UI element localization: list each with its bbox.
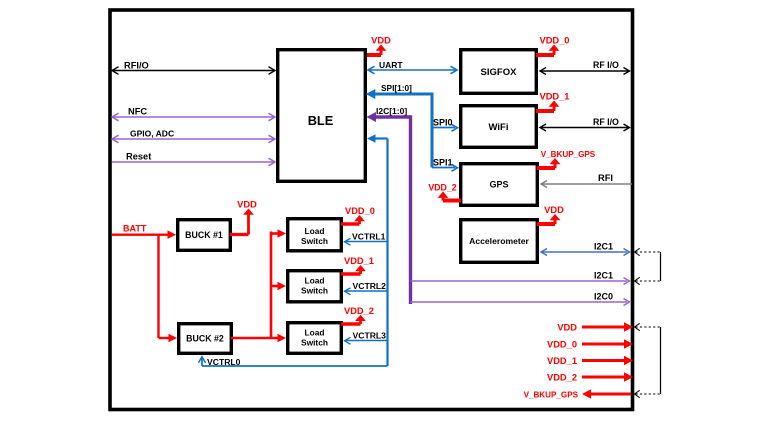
svg-text:V_BKUP_GPS: V_BKUP_GPS — [541, 150, 596, 159]
power VDD (Accelerometer) — [537, 222, 555, 226]
svg-text:VDD_2: VDD_2 — [547, 372, 577, 382]
svg-text:SPI1: SPI1 — [433, 157, 453, 167]
svg-text:VCTRL2: VCTRL2 — [353, 281, 387, 291]
svg-text:GPS: GPS — [489, 180, 508, 190]
block Accelerometer U5 — [461, 220, 538, 263]
svg-text:VDD_0: VDD_0 — [547, 339, 577, 349]
wire BATT branch down to BUCK#2 — [157, 235, 159, 338]
port VDD_1 (right border) — [582, 359, 624, 362]
block BUCK #1 — [178, 220, 231, 251]
wire SPI1 — [432, 167, 455, 169]
svg-text:Accelerometer: Accelerometer — [469, 236, 529, 246]
svg-text:I2C1: I2C1 — [594, 270, 613, 280]
power V_BKUP_GPS (GPS) — [537, 166, 555, 170]
wire VCTRL loop from BLE — [374, 137, 388, 139]
wire branch to Load Switch 1 — [271, 232, 280, 235]
wire RF I/O (SIGFOX) — [540, 70, 629, 72]
power VDD_0 (SIGFOX) — [536, 53, 554, 57]
svg-text:Switch: Switch — [301, 337, 328, 347]
wire VCTRL2 — [346, 290, 388, 292]
svg-text:VDD_0: VDD_0 — [345, 206, 375, 216]
svg-text:BUCK #2: BUCK #2 — [186, 334, 224, 344]
port VDD_2 (right border) — [582, 376, 624, 379]
svg-text:VDD: VDD — [237, 200, 257, 210]
block Load Switch 1 — [288, 219, 342, 251]
svg-text:RFI/O: RFI/O — [124, 60, 149, 70]
block BUCK #2 — [179, 324, 232, 354]
svg-text:BUCK #1: BUCK #1 — [185, 230, 223, 240]
wire BATT — [112, 233, 170, 235]
block BLE U1 — [278, 50, 366, 182]
wire NFC — [112, 116, 275, 118]
wire UART — [368, 69, 457, 71]
svg-text:BLE: BLE — [308, 113, 334, 128]
svg-text:VDD_2: VDD_2 — [344, 306, 374, 316]
svg-text:VDD: VDD — [557, 322, 577, 332]
bracket dashed I2C1-I2C1 outside border — [636, 251, 661, 253]
svg-text:BATT: BATT — [123, 224, 147, 234]
svg-text:I2C1: I2C1 — [594, 241, 613, 251]
block WiFi U3 — [461, 106, 537, 148]
block GPS U4 — [461, 164, 538, 206]
svg-text:Switch: Switch — [301, 236, 328, 246]
power VDD (BLE) — [367, 53, 381, 57]
svg-text:VDD: VDD — [544, 205, 564, 215]
wire I2C1 (Accelerometer) — [541, 251, 627, 253]
wire VCTRL3 — [346, 340, 388, 342]
svg-text:GPIO, ADC: GPIO, ADC — [130, 129, 174, 139]
wire SPI0 — [432, 127, 455, 129]
power VDD_1 (Load Switch 2) — [341, 272, 361, 276]
wire GPIO, ADC — [112, 138, 275, 140]
wire I2C1 (bus to border) — [411, 280, 628, 282]
svg-text:SPI0: SPI0 — [433, 117, 453, 127]
svg-text:V_BKUP_GPS: V_BKUP_GPS — [524, 390, 579, 399]
svg-text:VDD: VDD — [371, 36, 391, 46]
svg-text:VDD_0: VDD_0 — [540, 36, 570, 46]
bus SPI[1:0] — [374, 93, 432, 96]
svg-text:VDD_1: VDD_1 — [344, 256, 374, 266]
svg-text:UART: UART — [379, 60, 403, 70]
svg-text:Load: Load — [304, 328, 324, 338]
wire BUCK#2 output to Load Switches — [231, 337, 280, 340]
power VDD_0 (Load Switch 1) — [341, 222, 360, 226]
arrow VCTRL0 into BUCK#2 — [199, 357, 206, 363]
svg-text:VDD_2: VDD_2 — [428, 183, 456, 193]
block SIGFOX U2 — [461, 50, 537, 94]
port VDD_0 (right border) — [582, 343, 624, 346]
wire RFI/O — [112, 70, 275, 72]
wire I2C0 (bus to border) — [411, 301, 628, 303]
power VDD_1 (WiFi) — [536, 109, 554, 113]
power VDD (BUCK #1) — [230, 233, 249, 236]
svg-text:VCTRL3: VCTRL3 — [353, 331, 387, 341]
svg-text:NFC: NFC — [128, 107, 147, 117]
wire Reset — [112, 161, 275, 163]
svg-text:RFI: RFI — [598, 173, 613, 183]
svg-text:VDD_1: VDD_1 — [547, 356, 577, 366]
wire RFI (GPS) — [541, 183, 632, 185]
svg-text:Switch: Switch — [301, 286, 328, 296]
port V_BKUP_GPS (right border) — [590, 393, 631, 396]
svg-text:I2C0: I2C0 — [594, 291, 613, 301]
bracket dashed VDD-V_BKUP_GPS outside border — [636, 326, 661, 328]
svg-text:SPI[1:0]: SPI[1:0] — [381, 83, 412, 93]
svg-text:Reset: Reset — [126, 152, 151, 162]
svg-text:RF I/O: RF I/O — [593, 117, 619, 127]
power VDD_2 (Load Switch 3) — [341, 322, 361, 326]
svg-text:Load: Load — [304, 226, 324, 236]
svg-text:VCTRL1: VCTRL1 — [352, 232, 386, 242]
wire VCTRL1 — [346, 241, 388, 243]
svg-text:SIGFOX: SIGFOX — [481, 67, 518, 78]
svg-text:Load: Load — [304, 276, 324, 286]
bus I2C[1:0] — [375, 115, 411, 118]
port VDD (right border) — [582, 326, 624, 329]
svg-text:RF I/O: RF I/O — [593, 60, 619, 70]
block Load Switch 2 — [288, 271, 342, 302]
svg-text:I2C[1:0]: I2C[1:0] — [376, 106, 407, 116]
svg-text:VDD_1: VDD_1 — [540, 92, 570, 102]
wire RF I/O (WiFi) — [540, 127, 629, 129]
svg-text:WiFi: WiFi — [489, 122, 509, 133]
block Load Switch 3 — [288, 323, 342, 354]
power VDD_2 (GPS) — [443, 199, 461, 203]
wire branch to Load Switch 2 — [271, 285, 280, 288]
svg-text:VCTRL0: VCTRL0 — [207, 357, 241, 367]
